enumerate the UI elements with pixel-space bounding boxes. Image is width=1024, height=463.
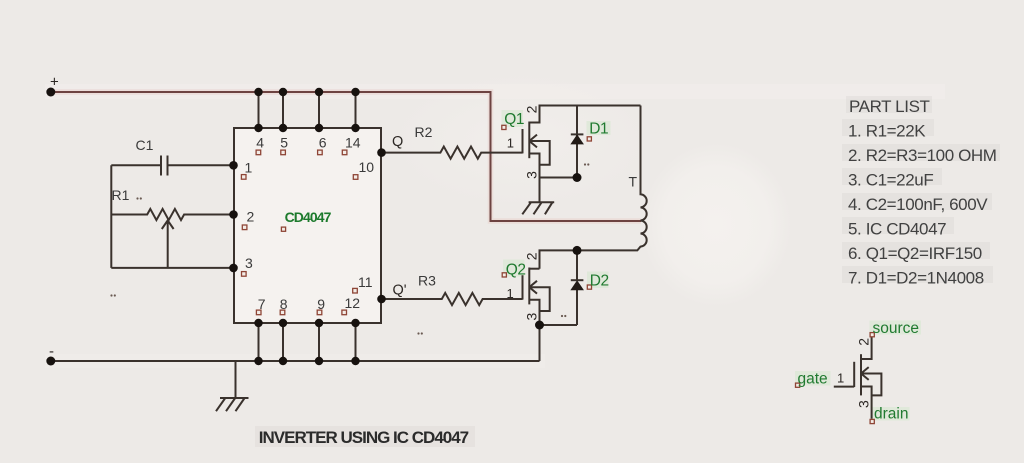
svg-text:+: + <box>50 74 59 91</box>
svg-text:drain: drain <box>874 406 908 423</box>
svg-text:2: 2 <box>524 105 540 113</box>
svg-text:R1: R1 <box>112 187 130 203</box>
svg-text:R3: R3 <box>418 272 436 288</box>
svg-text:3: 3 <box>524 171 540 179</box>
svg-text:8: 8 <box>280 296 288 312</box>
svg-text:INVERTER USING IC CD4047: INVERTER USING IC CD4047 <box>259 428 469 447</box>
svg-text:14: 14 <box>345 134 361 150</box>
svg-text:-: - <box>49 343 54 360</box>
svg-text:10: 10 <box>359 159 375 175</box>
svg-text:Q': Q' <box>393 283 407 299</box>
svg-text:12: 12 <box>345 295 361 311</box>
svg-text:T: T <box>629 173 638 189</box>
svg-text:4. C2=100nF, 600V: 4. C2=100nF, 600V <box>848 195 988 214</box>
svg-text:gate: gate <box>798 371 828 388</box>
svg-text:7: 7 <box>258 296 266 312</box>
svg-text:1. R1=22K: 1. R1=22K <box>848 122 926 141</box>
svg-text:7. D1=D2=1N4008: 7. D1=D2=1N4008 <box>848 269 984 288</box>
svg-text:3: 3 <box>524 313 540 321</box>
svg-text:2: 2 <box>524 252 540 260</box>
svg-text:3: 3 <box>855 400 871 408</box>
svg-text:Q1: Q1 <box>504 111 524 128</box>
svg-text:5: 5 <box>280 134 288 150</box>
svg-text:4: 4 <box>256 134 264 150</box>
svg-text:2. R2=R3=100 OHM: 2. R2=R3=100 OHM <box>848 146 997 165</box>
svg-text:1: 1 <box>245 159 253 175</box>
svg-text:Q: Q <box>392 134 403 150</box>
svg-text:D1: D1 <box>589 121 608 138</box>
svg-text:11: 11 <box>358 274 373 290</box>
svg-text:PART LIST: PART LIST <box>849 97 930 116</box>
svg-text:1: 1 <box>507 286 514 301</box>
svg-text:2: 2 <box>247 209 255 225</box>
svg-text:Q2: Q2 <box>506 261 526 278</box>
svg-text:CD4047: CD4047 <box>285 209 332 225</box>
svg-text:1: 1 <box>507 136 514 151</box>
svg-text:R2: R2 <box>415 124 433 140</box>
svg-text:3: 3 <box>245 255 253 271</box>
svg-text:6. Q1=Q2=IRF150: 6. Q1=Q2=IRF150 <box>848 244 982 263</box>
svg-text:5. IC CD4047: 5. IC CD4047 <box>848 220 946 239</box>
svg-text:9: 9 <box>317 296 325 312</box>
svg-text:source: source <box>873 320 920 337</box>
svg-text:C1: C1 <box>136 137 154 153</box>
svg-text:1: 1 <box>837 370 844 385</box>
svg-text:D2: D2 <box>590 273 609 290</box>
svg-text:2: 2 <box>855 338 871 346</box>
svg-text:3. C1=22uF: 3. C1=22uF <box>848 171 933 190</box>
svg-text:6: 6 <box>319 134 327 150</box>
